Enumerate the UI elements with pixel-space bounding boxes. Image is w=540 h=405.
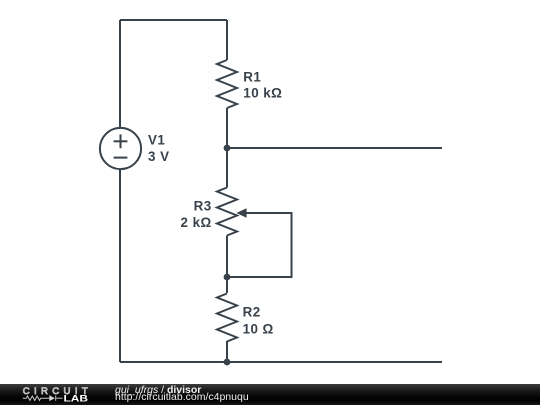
svg-text:R2: R2 bbox=[243, 305, 261, 320]
label R2 name bbox=[243, 305, 261, 320]
wire top rail bbox=[120, 19, 227, 21]
resistor R2 body bbox=[217, 294, 237, 342]
wire left vertical top (top rail to V1) bbox=[119, 20, 121, 128]
svg-text:3 V: 3 V bbox=[148, 149, 169, 164]
node A junction dot bbox=[224, 145, 231, 152]
svg-text:2 kΩ: 2 kΩ bbox=[181, 215, 212, 230]
node B junction dot bbox=[224, 274, 231, 281]
svg-text:R1: R1 bbox=[243, 70, 261, 85]
label R1 value 10 k ohm bbox=[243, 86, 282, 101]
label R3 value 2 k ohm bbox=[181, 215, 212, 230]
wire bottom rail bbox=[120, 361, 442, 363]
CircuitLab logo bbox=[0, 384, 110, 405]
wire R2 top lead bbox=[226, 277, 228, 293]
V1 minus sign bbox=[114, 157, 128, 159]
wire R3 wiper loop bbox=[229, 213, 292, 277]
wire R2 bottom lead bbox=[226, 341, 228, 362]
resistor R1 body bbox=[217, 60, 237, 108]
voltage source V1 circle bbox=[100, 128, 141, 169]
label R2 value 10 ohm bbox=[243, 321, 274, 336]
label V1 value 3 V bbox=[148, 149, 169, 164]
wire node A to right bbox=[227, 147, 442, 149]
wire node A down to R3 bbox=[226, 148, 228, 188]
label R3 name bbox=[194, 199, 212, 214]
potentiometer R3 body bbox=[217, 188, 237, 236]
wire R1 top lead bbox=[226, 20, 228, 60]
node C junction dot bbox=[224, 359, 231, 366]
R3 wiper arrow bbox=[236, 208, 246, 217]
svg-text:10 Ω: 10 Ω bbox=[243, 321, 274, 336]
wire R3 bottom lead to node B bbox=[226, 236, 228, 278]
label V1 name bbox=[148, 132, 165, 147]
svg-text:LAB: LAB bbox=[64, 393, 89, 403]
label R1 name bbox=[243, 70, 261, 85]
V1 plus sign bbox=[114, 134, 128, 148]
svg-text:10 kΩ: 10 kΩ bbox=[243, 86, 282, 101]
wire R1 bottom lead to node A bbox=[226, 108, 228, 148]
wire left vertical bottom (V1 to bottom rail) bbox=[119, 170, 121, 363]
svg-text:V1: V1 bbox=[148, 132, 165, 147]
svg-text:R3: R3 bbox=[194, 199, 212, 214]
